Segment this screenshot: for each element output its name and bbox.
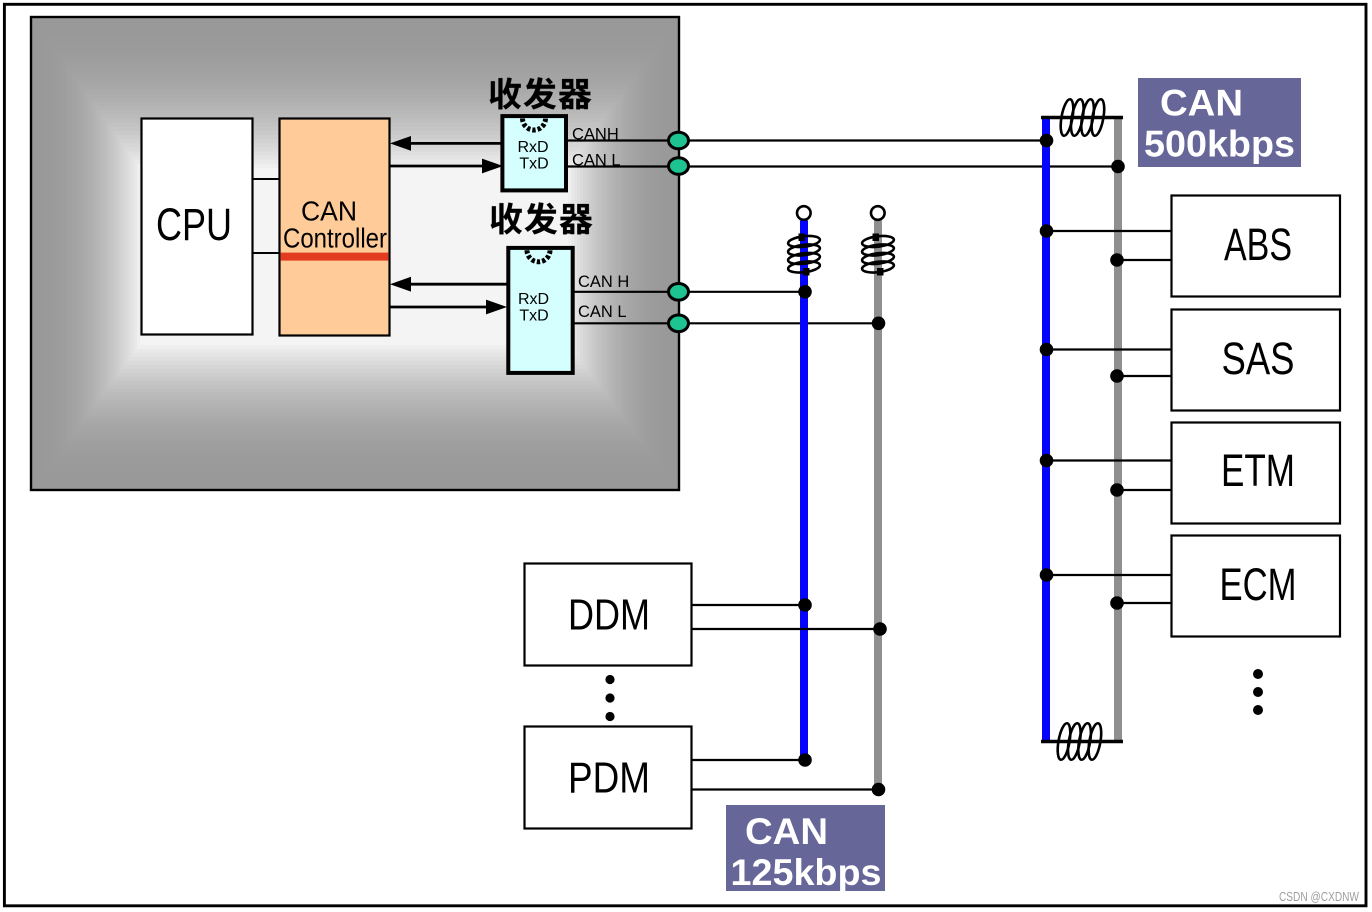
node connector CANH (teal) xyxy=(669,132,689,149)
svg-text:RxD: RxD xyxy=(517,139,548,156)
wire ETM to gray bus xyxy=(1118,489,1172,491)
junction DDM / gray bus xyxy=(873,622,887,636)
junction ABS / blue bus xyxy=(1040,224,1054,238)
wire SAS to gray bus xyxy=(1118,375,1172,377)
node connector CAN L (teal) xyxy=(669,315,689,332)
arrow controller TxD to U2 xyxy=(390,300,507,315)
transceiver U2 box xyxy=(508,248,572,373)
junction ETM / blue bus xyxy=(1040,454,1054,468)
svg-text:CAN H: CAN H xyxy=(578,273,629,291)
terminating resistor R (bottom, 500k bus) xyxy=(1055,722,1103,760)
junction U2 CAN L / gray bus xyxy=(872,317,886,331)
PDM node box xyxy=(525,727,692,829)
junction ABS / gray bus xyxy=(1110,253,1124,267)
terminating resistor (gray 125k bus) xyxy=(861,234,894,276)
125k bus CAN H line (blue) xyxy=(800,221,808,761)
wire DDM to blue bus xyxy=(692,604,805,606)
wire SAS to blue bus xyxy=(1046,348,1172,350)
label 收发器 (transceiver) bottom xyxy=(491,202,593,234)
wire CANL net (U1 to 500k gray bus) xyxy=(568,165,1119,167)
node connector CANL (teal) xyxy=(669,158,689,175)
arrow controller TxD to U1 xyxy=(390,159,503,174)
node connector CAN H (teal) xyxy=(669,284,689,301)
svg-text:CPU: CPU xyxy=(156,199,232,250)
ellipsis nodes between DDM and PDM xyxy=(605,675,614,721)
wire ABS to gray bus xyxy=(1118,259,1172,261)
wire CPU-controller lower xyxy=(253,252,280,254)
junction ECM / gray bus xyxy=(1110,596,1124,610)
junction PDM / gray bus end xyxy=(872,783,886,797)
junction U1 CANH / blue bus xyxy=(1040,134,1054,148)
wire ABS to blue bus xyxy=(1046,230,1172,232)
junction ECM / blue bus xyxy=(1040,568,1054,582)
wire CPU-controller upper xyxy=(253,178,280,180)
svg-text:125kbps: 125kbps xyxy=(731,851,882,893)
svg-text:CAN: CAN xyxy=(1160,82,1243,124)
arrow U1 RxD to controller xyxy=(390,136,503,151)
svg-text:ETM: ETM xyxy=(1221,445,1295,496)
wire CAN L net (U2 to 125k gray bus) xyxy=(573,322,879,324)
net label CAN 125kbps xyxy=(726,805,885,893)
junction U2 CAN H / blue bus xyxy=(798,285,812,299)
terminating resistor (blue 125k bus) xyxy=(787,234,820,276)
junction SAS / blue bus xyxy=(1040,343,1054,357)
ECM node box xyxy=(1172,536,1341,637)
net label CAN 500kbps xyxy=(1138,78,1301,167)
DDM node box xyxy=(525,564,692,666)
wire ETM to blue bus xyxy=(1046,459,1172,461)
500k bus CAN H line (blue) xyxy=(1042,118,1050,742)
svg-text:TxD: TxD xyxy=(519,308,548,325)
junction PDM / blue bus end xyxy=(798,753,812,767)
svg-text:CSDN @CXDNW: CSDN @CXDNW xyxy=(1279,890,1359,904)
svg-text:Controller: Controller xyxy=(283,223,387,254)
svg-text:SAS: SAS xyxy=(1222,333,1295,384)
wire PDM to blue bus xyxy=(692,759,805,761)
wire ECM to gray bus xyxy=(1118,602,1172,604)
bottom termination wire xyxy=(1041,740,1123,744)
svg-text:DDM: DDM xyxy=(568,591,650,640)
wire ECM to blue bus xyxy=(1046,574,1172,576)
CAN Controller box xyxy=(280,119,390,336)
top termination wire xyxy=(1041,116,1123,120)
junction U1 CANL / gray bus xyxy=(1111,160,1125,174)
MCU module box (gradient) xyxy=(31,17,679,490)
svg-text:TxD: TxD xyxy=(519,155,548,172)
svg-text:CAN L: CAN L xyxy=(578,303,627,321)
wire DDM to gray bus xyxy=(692,628,879,630)
500k bus CAN L line (gray) xyxy=(1114,118,1122,742)
junction SAS / gray bus xyxy=(1110,369,1124,383)
arrow U2 RxD to controller xyxy=(390,277,507,292)
SAS node box xyxy=(1172,310,1341,411)
svg-text:PDM: PDM xyxy=(568,754,650,803)
junction DDM / blue bus xyxy=(798,598,812,612)
label 收发器 (transceiver) top xyxy=(490,77,592,109)
wire CAN H net (U2 to 125k blue bus) xyxy=(573,291,805,293)
terminating resistor R (top, 500k bus) xyxy=(1058,98,1106,136)
transceiver U1 box xyxy=(502,116,566,190)
junction ETM / gray bus xyxy=(1110,483,1124,497)
125k bus CAN L line (gray) xyxy=(874,221,882,791)
wire CANH net (U1 to 500k blue bus) xyxy=(568,139,1047,141)
svg-text:500kbps: 500kbps xyxy=(1144,123,1295,165)
ellipsis nodes below ECM xyxy=(1253,669,1263,715)
svg-text:ECM: ECM xyxy=(1220,559,1297,610)
wire PDM to gray bus xyxy=(692,788,879,790)
open terminal node (blue bus) xyxy=(797,206,811,220)
svg-text:ABS: ABS xyxy=(1224,219,1292,270)
open terminal node (gray bus) xyxy=(871,206,885,220)
CPU box xyxy=(142,119,253,335)
svg-text:RxD: RxD xyxy=(518,291,549,308)
ETM node box xyxy=(1172,423,1341,524)
ABS node box xyxy=(1172,196,1341,297)
svg-text:CAN: CAN xyxy=(745,810,828,852)
